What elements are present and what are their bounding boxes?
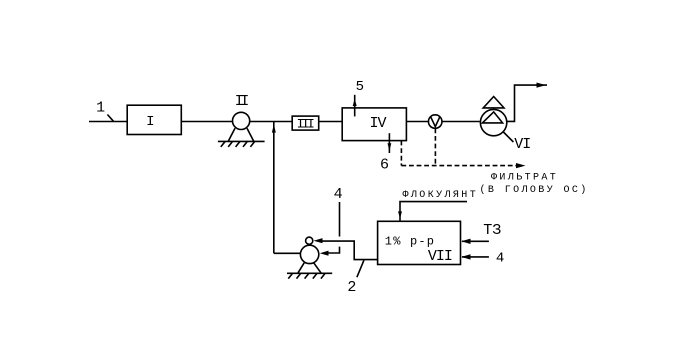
- svg-text:(В ГОЛОВУ ОС): (В ГОЛОВУ ОС): [480, 184, 589, 196]
- arrowhead filtrate right: [516, 163, 526, 168]
- wire 4 inlet right: [462, 256, 489, 258]
- wire II to III: [250, 121, 292, 123]
- svg-text:ФЛОКУЛЯНТ: ФЛОКУЛЯНТ: [403, 190, 479, 201]
- pump VI top triangle: [483, 97, 504, 108]
- wire TZ inlet: [462, 240, 489, 242]
- arrowhead into pump big circle: [320, 251, 329, 256]
- pump VI circle: [480, 109, 506, 135]
- node 1 tick: [107, 115, 113, 122]
- wire recycle riser: [273, 122, 275, 254]
- svg-text:III: III: [297, 117, 314, 132]
- svg-text:5: 5: [356, 79, 364, 95]
- pump II ground hatching: [221, 142, 225, 147]
- pump V big circle: [300, 245, 318, 263]
- apparatus IV box: [342, 108, 406, 141]
- pump II legs: [228, 128, 235, 141]
- wire riser to pump V: [274, 252, 301, 254]
- arrowhead outlet right: [537, 83, 546, 88]
- arrow 5 line: [354, 95, 356, 117]
- wire feed inlet: [89, 121, 127, 123]
- pump VI inner triangle: [482, 112, 502, 123]
- wire valve to VI: [442, 121, 480, 123]
- svg-text:6: 6: [380, 157, 389, 174]
- apparatus III box: [292, 116, 319, 130]
- valve V mark: [431, 117, 440, 127]
- wire I to II: [181, 121, 232, 123]
- pump II ground line: [218, 140, 265, 142]
- wire 4 feed upper segment: [339, 202, 341, 237]
- wire III to IV: [319, 121, 343, 123]
- svg-text:I: I: [146, 114, 154, 130]
- arrowhead into pump small circle: [314, 238, 323, 243]
- svg-text:VI: VI: [514, 136, 530, 153]
- wire VI outlet: [507, 85, 547, 121]
- svg-text:4: 4: [334, 186, 343, 203]
- svg-text:2: 2: [347, 279, 356, 296]
- node 2 tick: [357, 260, 364, 277]
- svg-text:1% р-р: 1% р-р: [385, 235, 435, 249]
- flocculant feed line: [400, 202, 467, 222]
- svg-text:IV: IV: [369, 115, 386, 132]
- pump V legs: [298, 263, 304, 273]
- arrowhead riser up: [272, 124, 276, 133]
- pump V ground hatching: [288, 273, 292, 278]
- wire 4 feed lower segment: [328, 247, 340, 253]
- svg-text:VII: VII: [428, 248, 452, 265]
- leader VI: [503, 132, 513, 142]
- svg-text:4: 4: [496, 251, 504, 267]
- dashed filtrate drop from valve: [434, 128, 436, 165]
- pump V small circle: [306, 237, 313, 244]
- svg-text:1: 1: [96, 100, 105, 117]
- arrow 6 line: [388, 133, 390, 153]
- arrowhead TZ left: [461, 239, 470, 244]
- arrowhead 6 down: [388, 143, 392, 151]
- arrowhead 4 right left: [461, 254, 470, 259]
- apparatus VII box: [378, 221, 461, 264]
- valve circle: [428, 115, 442, 129]
- pump V ground line: [287, 272, 332, 274]
- pump II circle: [233, 112, 250, 129]
- dashed filtrate header: [401, 165, 517, 167]
- arrowhead 5 up: [353, 99, 357, 106]
- arrowhead flocculant down: [398, 211, 402, 218]
- wire IV to valve: [406, 121, 428, 123]
- svg-text:ТЗ: ТЗ: [483, 222, 501, 239]
- wire VII to pump V: [322, 241, 378, 260]
- svg-text:ФИЛЬТРАТ: ФИЛЬТРАТ: [491, 173, 558, 184]
- apparatus I box: [127, 105, 181, 134]
- dashed filtrate drop from IV: [400, 141, 402, 166]
